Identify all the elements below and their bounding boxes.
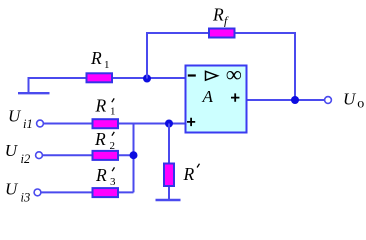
wire: row1 (Ui1 to op-amp plus input) bbox=[44, 123, 185, 125]
op-amp A bbox=[186, 62, 247, 133]
ground (left) bbox=[18, 92, 50, 94]
svg-text:A: A bbox=[202, 87, 214, 106]
label R1 bbox=[90, 48, 110, 71]
svg-text:2: 2 bbox=[110, 140, 116, 152]
label Rf bbox=[212, 5, 229, 28]
label R' bbox=[183, 164, 200, 184]
label R'1 bbox=[95, 95, 116, 117]
resistor R' bbox=[164, 164, 174, 187]
svg-text:3: 3 bbox=[110, 176, 116, 188]
terminal Ui3 bbox=[34, 189, 41, 196]
svg-text:i2: i2 bbox=[21, 152, 31, 166]
svg-text:R: R bbox=[94, 129, 106, 149]
svg-text:1: 1 bbox=[110, 106, 116, 118]
resistor R'3 bbox=[93, 188, 119, 197]
label Uo bbox=[343, 89, 364, 111]
svg-text:f: f bbox=[224, 14, 229, 28]
ground (bottom) bbox=[156, 199, 181, 201]
wire: row2 (Ui2 to summing vertical) bbox=[43, 154, 134, 156]
svg-text:U: U bbox=[5, 141, 19, 160]
svg-text:U: U bbox=[343, 89, 357, 108]
svg-text:i1: i1 bbox=[23, 117, 33, 131]
terminal Ui2 bbox=[36, 152, 43, 159]
svg-text:R: R bbox=[90, 48, 102, 68]
node: noninverting branch junction bbox=[165, 120, 173, 128]
resistor Rf bbox=[209, 29, 235, 38]
wire: summing vertical (joins rows 1-3) bbox=[133, 124, 135, 193]
wire: inverting input net (ground stub to op-amp minus input) bbox=[29, 78, 185, 93]
svg-text:U: U bbox=[5, 180, 19, 199]
svg-text:i3: i3 bbox=[21, 191, 31, 205]
label Ui1 bbox=[8, 107, 33, 131]
wire: R' branch down bbox=[168, 124, 170, 201]
wire: feedback loop bbox=[147, 33, 295, 100]
wire: row3 (Ui3 to summing vertical) bbox=[41, 191, 134, 193]
terminal Ui1 bbox=[37, 120, 44, 127]
svg-text:1: 1 bbox=[104, 59, 110, 71]
resistor R1 bbox=[87, 73, 113, 82]
node: row2 junction bbox=[130, 151, 138, 159]
svg-text:∞: ∞ bbox=[226, 62, 242, 87]
svg-text:R: R bbox=[183, 164, 195, 184]
svg-text:R: R bbox=[95, 95, 107, 115]
svg-text:R: R bbox=[212, 5, 224, 25]
label Ui2 bbox=[5, 141, 30, 166]
label R'2 bbox=[94, 129, 115, 152]
svg-text:U: U bbox=[8, 107, 22, 126]
terminal Uo bbox=[325, 97, 332, 104]
svg-text:R: R bbox=[95, 165, 107, 185]
svg-text:o: o bbox=[357, 97, 364, 112]
resistor R'2 bbox=[93, 151, 119, 160]
node: output junction bbox=[291, 96, 299, 104]
label R'3 bbox=[95, 165, 116, 188]
node: inverting input junction bbox=[143, 75, 151, 83]
wire: output bbox=[248, 99, 325, 101]
label Ui3 bbox=[5, 180, 30, 205]
resistor R'1 bbox=[93, 119, 119, 128]
